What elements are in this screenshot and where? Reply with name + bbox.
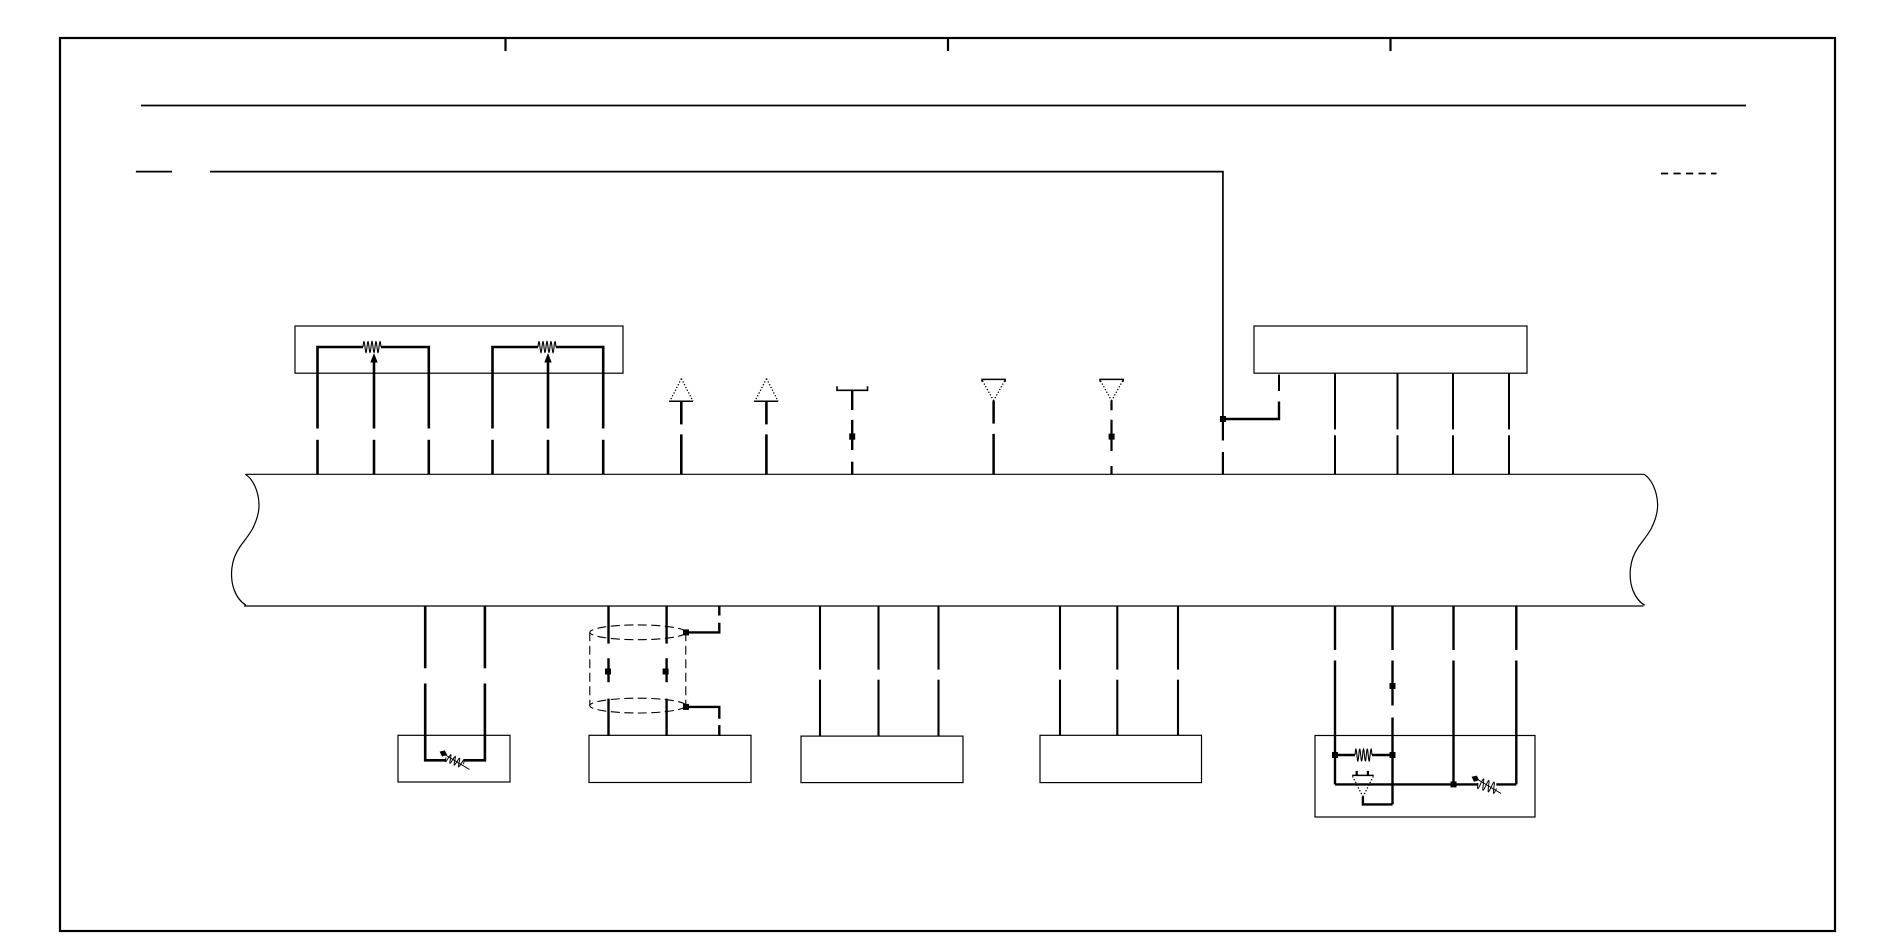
wire: B3 pin 1 [819, 606, 821, 736]
variable resistor VR2 [1472, 776, 1501, 794]
wire: J1 down to bus (dashed) [1222, 419, 1224, 441]
wire: B5 pin 1 [1332, 606, 1338, 784]
sensor box (top left) [295, 326, 623, 373]
wire: B3 pin 2 [877, 606, 879, 736]
harness bus left break curve [232, 474, 259, 605]
R1 wiper arrow [373, 362, 376, 429]
connector arrow A4 (down triangle) [1100, 379, 1123, 474]
resistor R3 [1335, 749, 1393, 761]
wire: B4 pin 1 [1059, 606, 1061, 735]
fold tick 3 [1389, 39, 1391, 51]
wire: U1 pin 4 [1452, 373, 1454, 429]
wire: grommet top hook [683, 606, 719, 635]
variable resistor VR1 [440, 750, 470, 769]
terminal T bracket [837, 386, 868, 474]
wire: U1 pin 3 [1397, 373, 1399, 429]
wire: feed line right dashed tail [1661, 173, 1717, 175]
wire: B5 pin 4 [1515, 606, 1517, 784]
component box B3 [801, 736, 963, 783]
fold tick 2 [947, 39, 949, 51]
wire: B4 pin 2 [1116, 606, 1118, 735]
wire: B4 pin 3 [1177, 606, 1179, 735]
fold tick 1 [504, 39, 506, 51]
wire: B5 pin 2 [1390, 606, 1396, 804]
wire: grommet wire A [605, 606, 611, 736]
wire: header rule line [141, 105, 1746, 107]
component box B1 [398, 735, 510, 782]
connector U1 box (top right) [1254, 326, 1527, 373]
wire: B5 bottom row [1335, 783, 1516, 785]
wire: B1 pin 2 [464, 606, 485, 760]
wire: U1 pin 5 [1508, 373, 1510, 429]
connector arrow A2 (up triangle) [754, 379, 778, 475]
harness bus bottom edge [244, 605, 1643, 607]
wire: B3 pin 3 [937, 606, 939, 736]
wire: grommet wire B [663, 606, 669, 736]
potentiometer R2 [493, 342, 604, 475]
component box B4 [1040, 735, 1202, 782]
op-amp U2 [1352, 771, 1392, 805]
wire: U1 pin 2 [1334, 373, 1336, 429]
node J1 junction dot [1220, 416, 1226, 422]
wire: grommet bottom hook [683, 704, 719, 736]
R2 wiper arrow [547, 362, 550, 429]
component box B2 [589, 735, 751, 782]
connector arrow A1 (up triangle) [669, 379, 693, 475]
wire: B1 pin 1 [425, 606, 446, 760]
harness bus right break curve [1630, 474, 1657, 605]
component box B5 [1315, 736, 1535, 818]
wire: hook from J1 to connector U1 pin 1 [1223, 402, 1279, 420]
wire: B5 pin 3 [1451, 606, 1457, 787]
connector arrow A3 (down triangle) [982, 379, 1005, 474]
wire: feed line left dash stub [136, 171, 172, 173]
harness bus top edge [246, 473, 1645, 475]
potentiometer R1 [318, 342, 429, 475]
wire: feed line from top to node J1 [210, 172, 1223, 419]
grommet G1 dashed cylinder [590, 625, 686, 713]
